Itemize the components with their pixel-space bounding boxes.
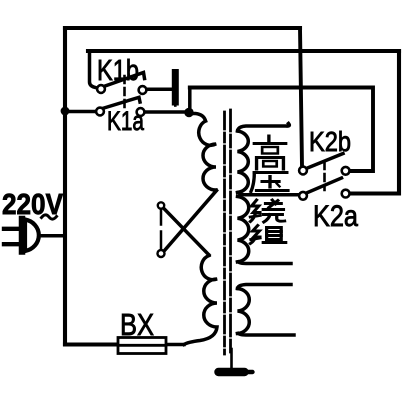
transformer core lines: [223, 112, 226, 354]
wire K1a right to junction: [145, 110, 189, 114]
wire K1b right to capacitor: [147, 88, 172, 92]
capacitor C plate left: [172, 73, 179, 103]
transformer secondary HV tap to K2a: [238, 193, 299, 195]
switch K2a: [299, 178, 349, 200]
wire top line 2: [88, 49, 399, 53]
label HV winding: char 组: [250, 226, 285, 244]
capacitor C plate right / riser: [188, 88, 192, 113]
wire plug to left vertical: [42, 234, 65, 238]
wire left vertical: [63, 28, 67, 344]
transformer secondary HV bottom lead: [238, 262, 292, 264]
switch K1b-K1a dashed link: [123, 76, 126, 107]
transformer secondary HV lower winding: [238, 197, 249, 262]
wire right vertical to K2a: [350, 51, 399, 194]
plug prong lower: [4, 242, 19, 246]
wire junction to transformer primary: [189, 114, 206, 122]
svg-text:BX: BX: [120, 307, 154, 342]
wire vertical to K2b left: [300, 28, 302, 166]
transformer secondary LV winding: [238, 289, 250, 334]
selector diagonal D2 (bottom circle to upper coil): [165, 191, 217, 251]
wire top line 1: [65, 26, 300, 30]
label HV winding: char 压: [251, 173, 288, 192]
transformer secondary LV top lead: [238, 285, 292, 289]
ground lead: [230, 349, 233, 368]
svg-text:K2a: K2a: [313, 200, 358, 233]
switch K1a: [96, 97, 144, 116]
node junction center: [184, 108, 193, 117]
switch K2b-K2a dashed link: [323, 162, 326, 190]
wire fuse to primary: [166, 343, 184, 347]
wire K1a row left: [65, 110, 95, 114]
selector contact bottom: [158, 250, 165, 257]
transformer secondary HV upper winding: [238, 131, 249, 193]
svg-text:220V: 220V: [2, 189, 64, 221]
transformer secondary LV bottom lead: [238, 334, 295, 336]
label HV winding: char 绕: [250, 200, 284, 222]
selector contact top: [158, 202, 164, 208]
transformer T primary lower winding: [184, 256, 217, 345]
ground bar: [219, 368, 245, 377]
svg-text:K1b: K1b: [97, 55, 139, 87]
plug prong upper: [4, 227, 19, 231]
wire line 3 to K2b right: [190, 88, 373, 172]
label HV winding: char 高: [254, 136, 285, 169]
transformer T primary upper winding: [199, 121, 216, 190]
node junction left: [61, 107, 70, 116]
svg-text:K1a: K1a: [107, 106, 145, 136]
wire line2 left drop to K1b: [90, 51, 97, 88]
svg-text:K2b: K2b: [309, 126, 351, 157]
transformer secondary HV top lead: [238, 124, 290, 132]
fuse BX: [118, 338, 166, 354]
switch K2b: [299, 154, 349, 175]
selector common link: [160, 210, 163, 250]
label AC tilde: [42, 215, 57, 219]
switch K1b: [97, 73, 146, 94]
wire bottom from left to fuse: [65, 342, 118, 346]
plug P dome: [25, 220, 39, 252]
selector diagonal D1 (top circle to lower coil): [164, 209, 209, 255]
plug P back bar: [19, 219, 26, 252]
